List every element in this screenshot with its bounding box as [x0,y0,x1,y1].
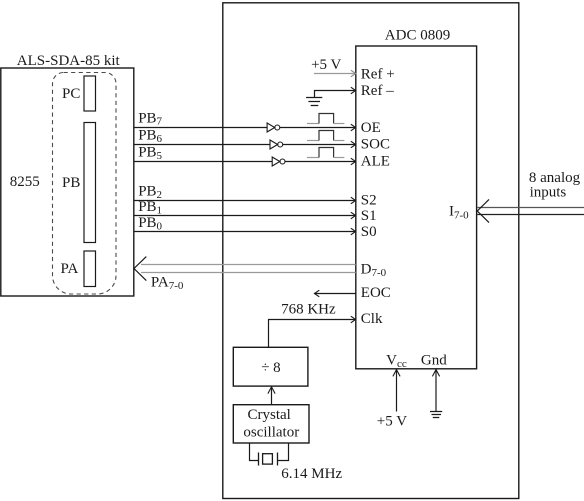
crystal X1 left plate [258,453,260,466]
bus arrowhead into PA port [134,257,146,281]
svg-text:PC: PC [62,86,80,102]
+5V supply label (bottom) [377,414,407,430]
pin Clk label [361,311,383,327]
svg-text:ALS-SDA-85 kit: ALS-SDA-85 kit [17,53,121,69]
dashed connector outline [53,73,117,295]
pin Ref+ label [361,66,395,82]
pulse waveform at OE [307,114,344,124]
arrowhead into Vcc [393,370,400,377]
wire PB2 to S2 [134,200,356,202]
768 KHz label [281,302,336,318]
wire ground to Gnd pin [435,370,437,411]
svg-text:ALE: ALE [361,154,390,170]
ground symbol (Ref-) [306,98,322,106]
svg-text:+5 V: +5 V [311,57,341,73]
wire PB5 [134,161,356,163]
svg-text:8255: 8255 [10,174,40,190]
bus arrowhead into I7-0 [477,199,489,222]
label PB5 [138,145,162,162]
inverter gate on PB6 [270,140,283,149]
8255 label [10,174,40,190]
ground symbol (Gnd pin) [430,412,442,418]
svg-text:Ref +: Ref + [361,66,395,82]
wire oscillator to divider [271,387,273,405]
svg-text:OE: OE [361,120,381,136]
wire +5V to Vcc [396,370,398,412]
pin Gnd label [421,353,447,369]
arrowhead into divider [268,387,275,394]
port PB label [62,175,80,191]
svg-text:÷ 8: ÷ 8 [261,360,280,376]
wire EOC [314,293,355,295]
arrowhead into SOC [351,141,356,148]
analog input bus lower line [477,214,584,216]
svg-text:ADC 0809: ADC 0809 [385,28,450,44]
label PB1 [138,199,162,216]
crystal X1 body [263,454,273,464]
label PB7 [138,110,162,127]
pin OE label [361,120,381,136]
data bus D7-0 upper line [141,264,356,266]
label PA7-0 [151,274,184,291]
pin ALE label [361,154,390,170]
label PB6 [138,128,162,145]
svg-text:oscillator: oscillator [243,425,299,441]
svg-text:EOC: EOC [361,285,391,301]
port PB connector [84,123,96,243]
ALS-SDA-85 kit label [17,53,121,69]
pin EOC label [361,285,391,301]
crystal oscillator label line 1 [248,407,291,423]
svg-text:S0: S0 [361,224,377,240]
port PA connector [84,251,96,287]
pin Ref- label [361,83,394,99]
outer interface box [223,3,519,499]
arrowhead into Ref- [351,87,356,94]
pin SOC label [361,137,390,153]
svg-text:+5 V: +5 V [377,414,407,430]
crystal X1 wiring [250,443,289,461]
arrowhead into S0 [351,228,356,235]
svg-text:6.14 MHz: 6.14 MHz [281,466,342,482]
arrowhead into Ref+ [351,70,356,77]
svg-text:S1: S1 [361,208,377,224]
svg-text:PB: PB [62,175,80,191]
label PB0 [138,215,162,232]
arrowhead into Gnd [432,370,439,377]
arrowhead into ALE [351,158,356,165]
crystal oscillator box [233,405,309,443]
svg-text:inputs: inputs [530,184,567,200]
svg-text:PA: PA [61,261,79,277]
svg-text:768 KHz: 768 KHz [281,302,336,318]
crystal oscillator label line 2 [243,425,299,441]
divide-by-8 label [261,360,280,376]
arrowhead into S1 [351,212,356,219]
pin I7-0 label [449,204,469,222]
pin Vcc label [386,353,407,371]
8255 kit box [1,68,134,296]
arrowhead into Clk [351,316,356,323]
pin S2 label [361,193,377,209]
analog input bus upper line [477,207,584,209]
inverter gate on PB5 [272,157,285,166]
pulse waveform at SOC [307,131,344,141]
wire PB7 [134,127,356,129]
arrowhead EOC (points left) [314,290,319,297]
svg-text:Gnd: Gnd [421,353,447,369]
wire Clk from divider [269,320,356,348]
data bus D7-0 lower line [141,272,356,274]
pin S1 label [361,208,377,224]
+5V supply node (Ref+) [311,57,341,73]
port PC label [62,86,80,102]
pin D7-0 label [361,262,387,279]
svg-text:SOC: SOC [361,137,390,153]
port PC connector [84,76,96,111]
ADC 0809 chip U1 box [356,46,477,369]
8 analog inputs label [529,170,581,200]
divide-by-8 box [233,347,308,386]
svg-text:Clk: Clk [361,311,383,327]
pin S0 label [361,224,377,240]
wire PB6 [134,144,356,146]
wire PB1 to S1 [134,215,356,217]
ADC 0809 label [385,28,450,44]
wire +5V to Ref+ [314,73,355,75]
crystal X1 right plate [277,453,279,466]
svg-text:Ref –: Ref – [361,83,394,99]
pulse waveform at ALE [307,148,344,158]
svg-text:S2: S2 [361,193,377,209]
label PB2 [138,184,162,201]
arrowhead into OE [351,124,356,131]
inverter gate on PB7 [267,123,280,132]
wire PB0 to S0 [134,231,356,233]
arrowhead into S2 [351,197,356,204]
6.14 MHz label [281,466,342,482]
wire Ref- to ground [315,91,356,98]
svg-text:Crystal: Crystal [248,407,291,423]
port PA label [61,261,79,277]
